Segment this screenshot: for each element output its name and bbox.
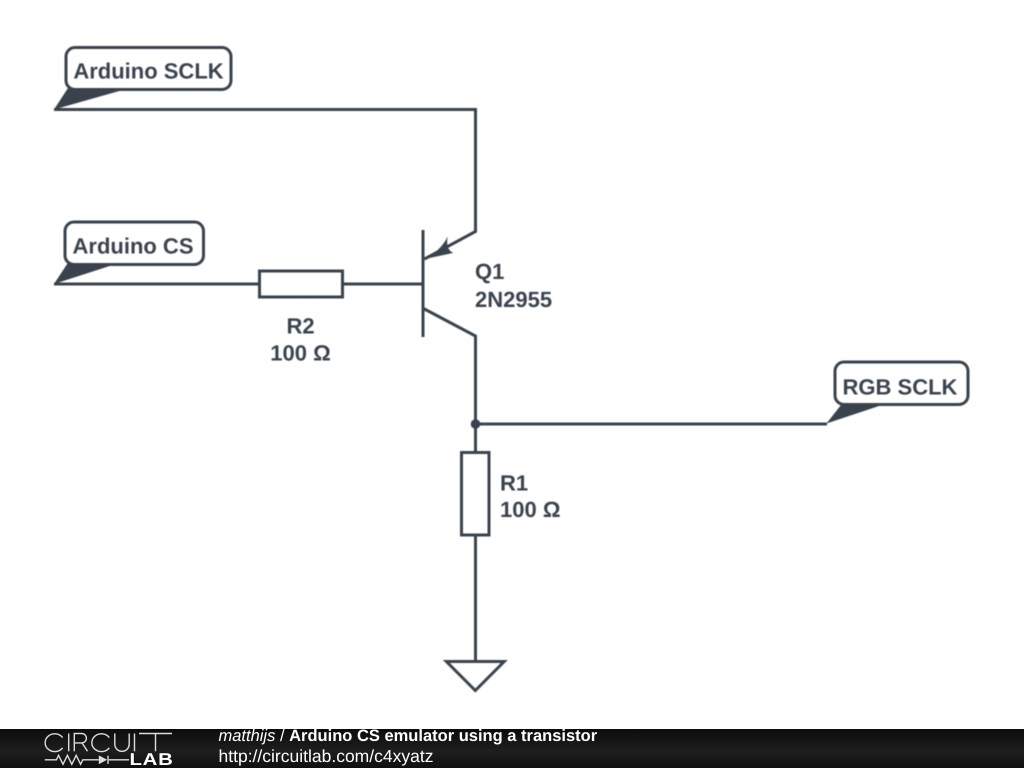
wire node to RGB SCLK flag: [476, 423, 828, 426]
transistor Q1 emitter arrow: [426, 236, 453, 259]
svg-text:100 Ω: 100 Ω: [270, 341, 330, 366]
svg-text:Arduino SCLK: Arduino SCLK: [73, 58, 223, 83]
svg-text:RGB SCLK: RGB SCLK: [843, 374, 958, 399]
transistor Q1 base bar: [422, 230, 425, 337]
wire net Arduino SCLK to Q1 collector: [54, 110, 476, 260]
flag box RGB SCLK: [835, 362, 968, 405]
wire R2 to Q1 base: [343, 283, 422, 286]
svg-text:Arduino CS: Arduino CS: [73, 234, 194, 259]
logo letter C: [92, 734, 109, 752]
flag tail RGB SCLK: [827, 403, 889, 424]
svg-text:Q1: Q1: [475, 259, 504, 284]
resistor R1 body: [462, 453, 490, 536]
svg-text:2N2955: 2N2955: [475, 287, 552, 312]
transistor Q1 emitter lead + wire down to node: [424, 309, 476, 453]
footer bar: [0, 729, 1024, 768]
wire R1 to ground: [474, 535, 477, 661]
ground symbol: [446, 662, 504, 691]
svg-text:R1: R1: [500, 471, 528, 496]
logo letter I: [134, 734, 136, 752]
logo letter U: [115, 734, 129, 752]
logo letter C: [45, 734, 62, 752]
flag tail Arduino SCLK: [54, 88, 130, 110]
logo letter T: [139, 734, 172, 752]
flag box Arduino SCLK: [66, 48, 231, 90]
flag tail Arduino CS: [54, 263, 119, 284]
flag box Arduino CS: [65, 222, 204, 265]
CircuitLab logo: [0, 729, 180, 768]
svg-text:100 Ω: 100 Ω: [500, 497, 560, 522]
footer url line: [219, 748, 434, 766]
resistor R2 body: [260, 271, 343, 297]
node junction dot: [471, 419, 481, 429]
logo letter I: [68, 734, 70, 752]
logo resistor zigzag wire: [45, 755, 129, 764]
svg-text:R2: R2: [286, 314, 314, 339]
wire Arduino CS to R2: [54, 283, 259, 286]
logo letter R: [74, 734, 87, 752]
footer title line: [219, 728, 598, 745]
logo diode triangle: [99, 755, 107, 764]
svg-text:LAB: LAB: [130, 750, 174, 768]
